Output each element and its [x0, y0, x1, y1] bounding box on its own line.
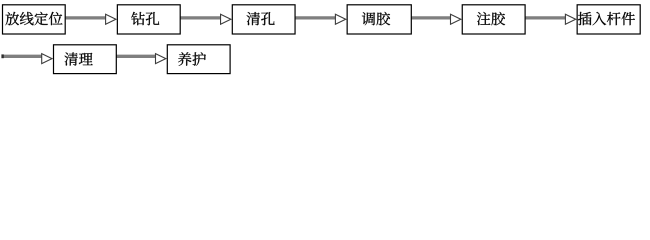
label text 放线定位	[6, 12, 63, 25]
process box 调胶	[347, 5, 411, 34]
label text 钻孔	[131, 12, 159, 25]
arrowhead of wire: 钻孔 to 清孔	[221, 14, 231, 24]
arrowhead of wire: 清孔 to 调胶	[335, 14, 345, 24]
wire: 放线定位 to 钻孔 shaft	[65, 16, 106, 19]
wire start cap node	[1, 54, 3, 58]
arrowhead of wire: 放线定位 to 钻孔	[106, 14, 116, 24]
arrowhead of wire: 注胶 to 插入杆件	[565, 14, 575, 24]
label text 注胶	[477, 12, 505, 25]
process box 钻孔	[117, 5, 180, 34]
process box 清理	[54, 45, 117, 74]
label text 调胶	[362, 12, 390, 25]
arrowhead of wire: 调胶 to 注胶	[451, 14, 461, 24]
arrowhead of wire: 清理 to 养护	[156, 54, 166, 64]
wire: 注胶 to 插入杆件 shaft	[525, 16, 566, 19]
label text 清孔	[247, 12, 275, 25]
process box 养护	[167, 45, 230, 74]
process box 插入杆件	[577, 5, 640, 34]
wire: 调胶 to 注胶 shaft	[411, 16, 451, 19]
label text 插入杆件	[578, 12, 635, 25]
process box 清孔	[232, 5, 295, 34]
process box 注胶	[462, 5, 525, 34]
label text 清理	[65, 53, 93, 66]
wire: 清孔 to 调胶 shaft	[295, 16, 336, 19]
process box 放线定位	[3, 5, 66, 34]
label text 养护	[178, 52, 206, 65]
wire: 清理 to 养护 shaft	[116, 55, 156, 58]
arrowhead of wire: entry to 清理	[42, 54, 52, 64]
wire: 钻孔 to 清孔 shaft	[180, 16, 221, 19]
wire: entry to 清理 shaft	[2, 55, 43, 58]
